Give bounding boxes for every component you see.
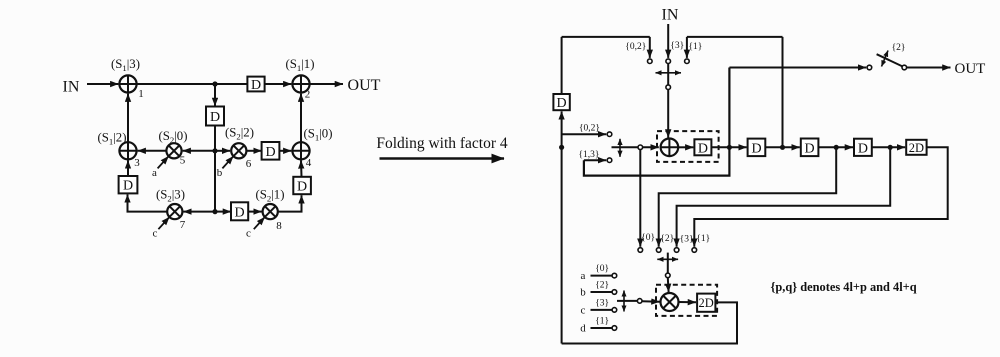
svg-text:{2}: {2}	[595, 281, 609, 291]
svg-text:D: D	[297, 180, 307, 195]
svg-text:2D: 2D	[909, 141, 924, 155]
svg-text:d: d	[580, 323, 586, 335]
svg-text:D: D	[557, 96, 567, 111]
svg-text:D: D	[751, 141, 761, 156]
svg-text:D: D	[123, 179, 133, 194]
svg-text:D: D	[858, 141, 868, 156]
svg-text:2: 2	[305, 89, 311, 101]
svg-text:{3}: {3}	[595, 298, 609, 308]
svg-text:{1}: {1}	[595, 317, 609, 327]
svg-text:1: 1	[138, 88, 144, 100]
svg-text:a: a	[581, 270, 586, 282]
svg-text:OUT: OUT	[348, 77, 381, 94]
svg-text:6: 6	[246, 158, 252, 170]
svg-text:D: D	[265, 145, 275, 160]
svg-text:D: D	[235, 205, 245, 220]
svg-text:c: c	[153, 228, 158, 240]
svg-text:a: a	[152, 167, 157, 179]
svg-text:D: D	[698, 141, 708, 156]
svg-text:b: b	[580, 287, 586, 299]
svg-text:Folding with factor 4: Folding with factor 4	[376, 135, 508, 152]
svg-text:{1}: {1}	[688, 42, 702, 52]
svg-text:{0,2}: {0,2}	[625, 42, 646, 52]
svg-text:IN: IN	[662, 7, 679, 24]
svg-text:OUT: OUT	[955, 61, 986, 77]
svg-text:c: c	[246, 228, 251, 240]
svg-text:D: D	[251, 78, 261, 93]
svg-text:{2}: {2}	[892, 43, 906, 53]
svg-text:{3}: {3}	[680, 235, 694, 245]
svg-text:{0}: {0}	[641, 233, 655, 243]
svg-text:{2}: {2}	[660, 234, 674, 244]
svg-text:b: b	[217, 167, 223, 179]
svg-text:7: 7	[180, 219, 186, 231]
svg-text:3: 3	[134, 157, 140, 169]
svg-text:D: D	[805, 141, 815, 156]
svg-text:{1,3}: {1,3}	[579, 150, 600, 160]
svg-text:{p,q} denotes 4l+p and 4l+q: {p,q} denotes 4l+p and 4l+q	[771, 280, 917, 294]
svg-text:{0}: {0}	[595, 264, 609, 274]
svg-text:4: 4	[306, 157, 312, 169]
svg-text:c: c	[581, 304, 586, 316]
svg-text:D: D	[210, 110, 220, 125]
svg-text:5: 5	[180, 155, 186, 167]
svg-text:8: 8	[276, 220, 282, 232]
svg-text:IN: IN	[63, 79, 80, 96]
svg-text:{0,2}: {0,2}	[579, 124, 600, 134]
svg-text:{3}: {3}	[670, 41, 684, 51]
svg-text:2D: 2D	[699, 296, 714, 310]
svg-text:{1}: {1}	[696, 234, 710, 244]
